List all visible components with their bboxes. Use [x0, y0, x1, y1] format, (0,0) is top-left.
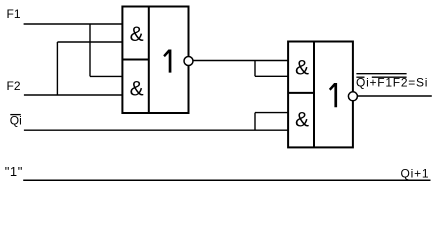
gate U2 OR column label 1	[329, 83, 337, 107]
wire U2 output Si	[357, 95, 431, 97]
wire F2 branch horizontal to U1 pin 2	[57, 41, 122, 43]
gate U2 output inversion bubble	[348, 92, 357, 101]
gate U1 OR column label 1	[163, 50, 171, 73]
gate U1 outer box	[122, 7, 188, 114]
svg-text:F2: F2	[7, 79, 21, 93]
wire F1 branch vertical at x=90	[89, 24, 91, 76]
gate U1 AND cell divider	[122, 59, 148, 61]
wire F1 horizontal to U1 pin 1	[24, 23, 123, 25]
wire F1 branch horizontal to U1 pin 3	[90, 75, 122, 77]
svg-text:&: &	[295, 108, 309, 131]
svg-text:"1": "1"	[5, 164, 23, 179]
svg-text:&: &	[130, 78, 144, 101]
gate U2 AND cell divider	[288, 92, 314, 94]
wire Qi-bar horizontal to U2 pin 4	[24, 129, 288, 131]
wire U1 output branch horizontal to U2 pin 2	[255, 75, 288, 77]
svg-text:Qi+1: Qi+1	[401, 167, 430, 181]
gate U2 column divider	[313, 42, 315, 148]
node Qi-bar label	[10, 114, 22, 128]
gate U1 output inversion bubble	[184, 57, 193, 66]
gate U1 column divider	[148, 7, 150, 114]
gate U2 outer box	[288, 42, 353, 148]
wire carry line Qi+1	[23, 179, 430, 181]
wire Qi-bar branch vertical at x=255	[254, 113, 256, 131]
wire U1 output to U2 pin 1	[193, 60, 288, 62]
wire U1 output branch vertical at x=255	[254, 61, 256, 77]
node Si output expression label	[356, 74, 428, 90]
svg-text:&: &	[295, 56, 309, 79]
svg-text:F1: F1	[7, 7, 21, 21]
wire F2 horizontal to U1 pin 4	[24, 94, 123, 96]
wire Qi-bar branch horizontal to U2 pin 3	[255, 112, 288, 114]
svg-text:&: &	[130, 23, 144, 46]
svg-text:Qi: Qi	[10, 114, 22, 128]
wire F2 branch vertical at x=57	[56, 42, 58, 95]
